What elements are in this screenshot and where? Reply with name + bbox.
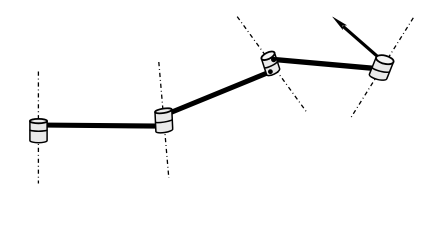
end-effector arrow shaft [343, 26, 381, 59]
axis of joint 1 [37, 72, 39, 184]
link 3 [273, 59, 379, 68]
joint J2 cylinder mid rim [155, 119, 172, 122]
joint J3 cylinder body [262, 53, 280, 76]
joint J1 cylinder mid rim [30, 130, 47, 131]
link 2 [170, 72, 270, 113]
joint J4 cylinder top cap [375, 54, 394, 66]
joint J4 cylinder body [369, 58, 393, 81]
joint J3 cylinder top cap [260, 50, 276, 62]
link 1 [39, 125, 159, 126]
axis of joint 3 [237, 17, 306, 112]
joint J1 cylinder top cap [30, 119, 47, 123]
end-effector arrow head [333, 17, 347, 30]
attachment dot on joint 3 (link 2 end) [268, 69, 273, 74]
joint J1 cylinder body [30, 121, 47, 143]
joint J2 cylinder top cap [155, 107, 172, 114]
joint J4 cylinder mid rim [372, 67, 389, 72]
attachment dot on joint 3 (link 3 end) [271, 57, 276, 62]
joint J2 cylinder body [155, 109, 173, 132]
axis of joint 4 [351, 18, 413, 118]
joint J3 cylinder mid rim [264, 61, 277, 68]
axis of joint 2 [159, 62, 169, 178]
